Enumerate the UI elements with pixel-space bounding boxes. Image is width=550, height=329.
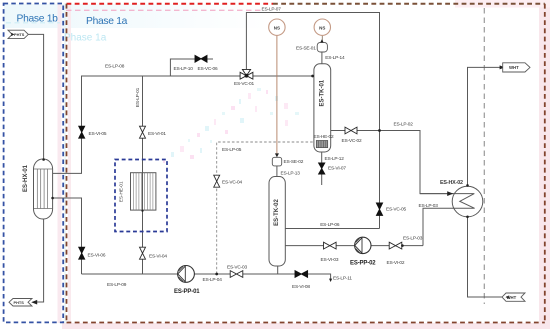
svg-text:ES-VC-02: ES-VC-02 [342, 138, 362, 144]
svg-text:ES-LP-09: ES-LP-09 [107, 282, 127, 288]
svg-text:ES-LP-05: ES-LP-05 [222, 147, 242, 153]
svg-text:ES-LP-04: ES-LP-04 [203, 277, 223, 283]
svg-text:ES-LP-03: ES-LP-03 [403, 235, 423, 241]
svg-text:NS: NS [274, 25, 280, 30]
svg-text:WHT: WHT [509, 65, 519, 70]
svg-text:ES-LP-14: ES-LP-14 [325, 55, 345, 61]
svg-text:Phase 1a: Phase 1a [86, 16, 128, 27]
svg-text:ES-LP-02: ES-LP-02 [394, 121, 414, 127]
svg-text:ES-LP-03: ES-LP-03 [419, 203, 439, 209]
svg-text:ES-VC-05: ES-VC-05 [386, 206, 406, 212]
svg-text:ES-LP-08: ES-LP-08 [105, 64, 125, 70]
svg-text:ES-VC-04: ES-VC-04 [222, 180, 242, 186]
svg-text:ES-SE-02: ES-SE-02 [284, 159, 304, 165]
svg-text:ES-LP-13: ES-LP-13 [281, 171, 301, 177]
svg-text:ES-LP-06: ES-LP-06 [320, 222, 340, 228]
svg-text:ES-VI-02: ES-VI-02 [387, 260, 405, 266]
svg-text:ES-VI-04: ES-VI-04 [149, 254, 167, 260]
svg-text:ES-LP-01: ES-LP-01 [135, 87, 141, 107]
svg-text:PHTS: PHTS [14, 32, 25, 37]
svg-text:NS: NS [319, 25, 325, 30]
svg-text:WHT: WHT [507, 295, 517, 300]
svg-text:Phase 1a: Phase 1a [64, 33, 107, 44]
svg-text:ES-VI-06: ES-VI-06 [88, 253, 106, 259]
svg-text:ES-VI-03: ES-VI-03 [321, 257, 339, 263]
svg-text:ES-LP-10: ES-LP-10 [174, 66, 194, 72]
svg-text:ES-VI-08: ES-VI-08 [292, 284, 310, 290]
svg-text:ES-SE-01: ES-SE-01 [296, 45, 316, 51]
svg-text:ES-VI-01: ES-VI-01 [148, 131, 166, 137]
svg-text:ES-LP-12: ES-LP-12 [325, 156, 345, 162]
svg-text:ES-HE-01: ES-HE-01 [118, 181, 123, 202]
svg-text:Phase 1b: Phase 1b [17, 13, 59, 24]
svg-text:ES-VC-03: ES-VC-03 [227, 265, 247, 271]
svg-text:ES-LP-11: ES-LP-11 [333, 276, 352, 282]
svg-text:ES-LP-07: ES-LP-07 [262, 7, 282, 13]
svg-text:ES-HX-02: ES-HX-02 [440, 180, 463, 186]
svg-text:ES-HX-01: ES-HX-01 [23, 164, 29, 192]
svg-text:ES-VC-01: ES-VC-01 [234, 81, 254, 87]
svg-text:ES-VI-07: ES-VI-07 [328, 165, 346, 171]
svg-text:ES-TK-02: ES-TK-02 [274, 199, 280, 226]
svg-text:ES-PP-01: ES-PP-01 [174, 289, 200, 295]
svg-text:PHTS: PHTS [14, 300, 25, 305]
svg-text:ES-HE-02: ES-HE-02 [314, 134, 334, 140]
svg-text:ES-TK-01: ES-TK-01 [320, 79, 326, 106]
svg-text:ES-PP-02: ES-PP-02 [350, 261, 376, 267]
svg-text:ES-VC-06: ES-VC-06 [198, 66, 218, 72]
svg-text:ES-VI-05: ES-VI-05 [89, 131, 107, 137]
